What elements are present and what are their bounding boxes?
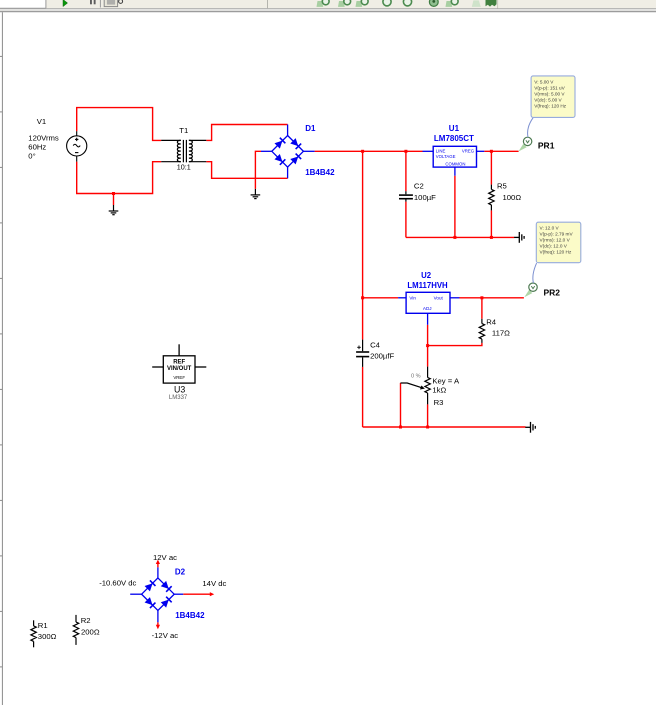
svg-text:R2: R2	[81, 616, 91, 625]
svg-text:VREF: VREF	[173, 375, 185, 380]
svg-text:14V dc: 14V dc	[202, 579, 226, 588]
svg-text:0°: 0°	[28, 152, 35, 161]
svg-text:V: 12.0 V: V: 12.0 V	[540, 226, 560, 231]
svg-text:10:1: 10:1	[177, 163, 191, 172]
svg-text:V(p-p): 2.79 mV: V(p-p): 2.79 mV	[540, 232, 574, 237]
svg-text:U2: U2	[421, 271, 432, 280]
svg-text:LM337: LM337	[169, 395, 188, 401]
svg-text:R3: R3	[434, 398, 444, 407]
svg-text:V: 5.00 V: V: 5.00 V	[534, 79, 554, 84]
svg-text:120Vrms: 120Vrms	[28, 133, 59, 142]
svg-text:U3: U3	[174, 385, 185, 395]
svg-text:R5: R5	[497, 182, 507, 191]
svg-text:V(rms): 5.00 V: V(rms): 5.00 V	[534, 91, 565, 96]
svg-text:-12V ac: -12V ac	[152, 631, 179, 640]
svg-text:60Hz: 60Hz	[28, 143, 46, 152]
svg-text:-10.60V dc: -10.60V dc	[99, 578, 136, 587]
svg-text:Key = A: Key = A	[432, 376, 460, 385]
svg-text:V(dc): 12.0 V: V(dc): 12.0 V	[540, 244, 568, 249]
svg-text:C2: C2	[414, 182, 424, 191]
svg-text:1kΩ: 1kΩ	[432, 386, 446, 395]
svg-text:LINE: LINE	[436, 149, 446, 154]
svg-text:Vin: Vin	[409, 296, 416, 301]
svg-text:V(freq): 120 Hz: V(freq): 120 Hz	[540, 250, 572, 255]
svg-text:200Ω: 200Ω	[81, 628, 100, 637]
svg-text:T1: T1	[179, 126, 188, 135]
svg-text:V1: V1	[37, 117, 46, 126]
svg-text:VOLTAGE: VOLTAGE	[436, 154, 456, 159]
svg-text:117Ω: 117Ω	[492, 328, 510, 337]
svg-text:R1: R1	[38, 621, 48, 630]
svg-text:200µfF: 200µfF	[370, 351, 394, 360]
svg-text:COMMON: COMMON	[445, 161, 465, 166]
svg-text:ADJ: ADJ	[423, 306, 432, 311]
svg-text:C4: C4	[370, 341, 381, 350]
svg-text:VREG: VREG	[462, 149, 475, 154]
svg-text:D2: D2	[175, 568, 186, 577]
svg-text:V(dc): 5.00 V: V(dc): 5.00 V	[534, 97, 562, 102]
svg-text:PR1: PR1	[538, 140, 555, 150]
svg-text:LM117HVH: LM117HVH	[407, 281, 448, 290]
svg-text:V(rms): 12.0 V: V(rms): 12.0 V	[540, 238, 571, 243]
svg-text:U1: U1	[449, 124, 460, 133]
svg-text:0 %: 0 %	[411, 373, 421, 379]
svg-text:V(freq): 120 Hz: V(freq): 120 Hz	[534, 103, 566, 108]
svg-text:300Ω: 300Ω	[38, 632, 57, 641]
svg-text:100µF: 100µF	[414, 193, 436, 202]
svg-text:VIN/OUT: VIN/OUT	[167, 366, 192, 372]
svg-text:PR2: PR2	[544, 288, 561, 298]
svg-text:12V ac: 12V ac	[153, 553, 177, 562]
svg-text:REF: REF	[173, 359, 185, 365]
svg-text:D1: D1	[305, 124, 316, 133]
svg-text:Vout: Vout	[434, 296, 444, 301]
svg-text:1B4B42: 1B4B42	[175, 611, 205, 620]
svg-text:V(p-p): 151 uV: V(p-p): 151 uV	[534, 85, 565, 90]
svg-text:100Ω: 100Ω	[503, 193, 522, 202]
svg-text:LM7805CT: LM7805CT	[434, 134, 474, 143]
svg-text:R4: R4	[486, 317, 497, 326]
svg-text:1B4B42: 1B4B42	[305, 168, 335, 177]
